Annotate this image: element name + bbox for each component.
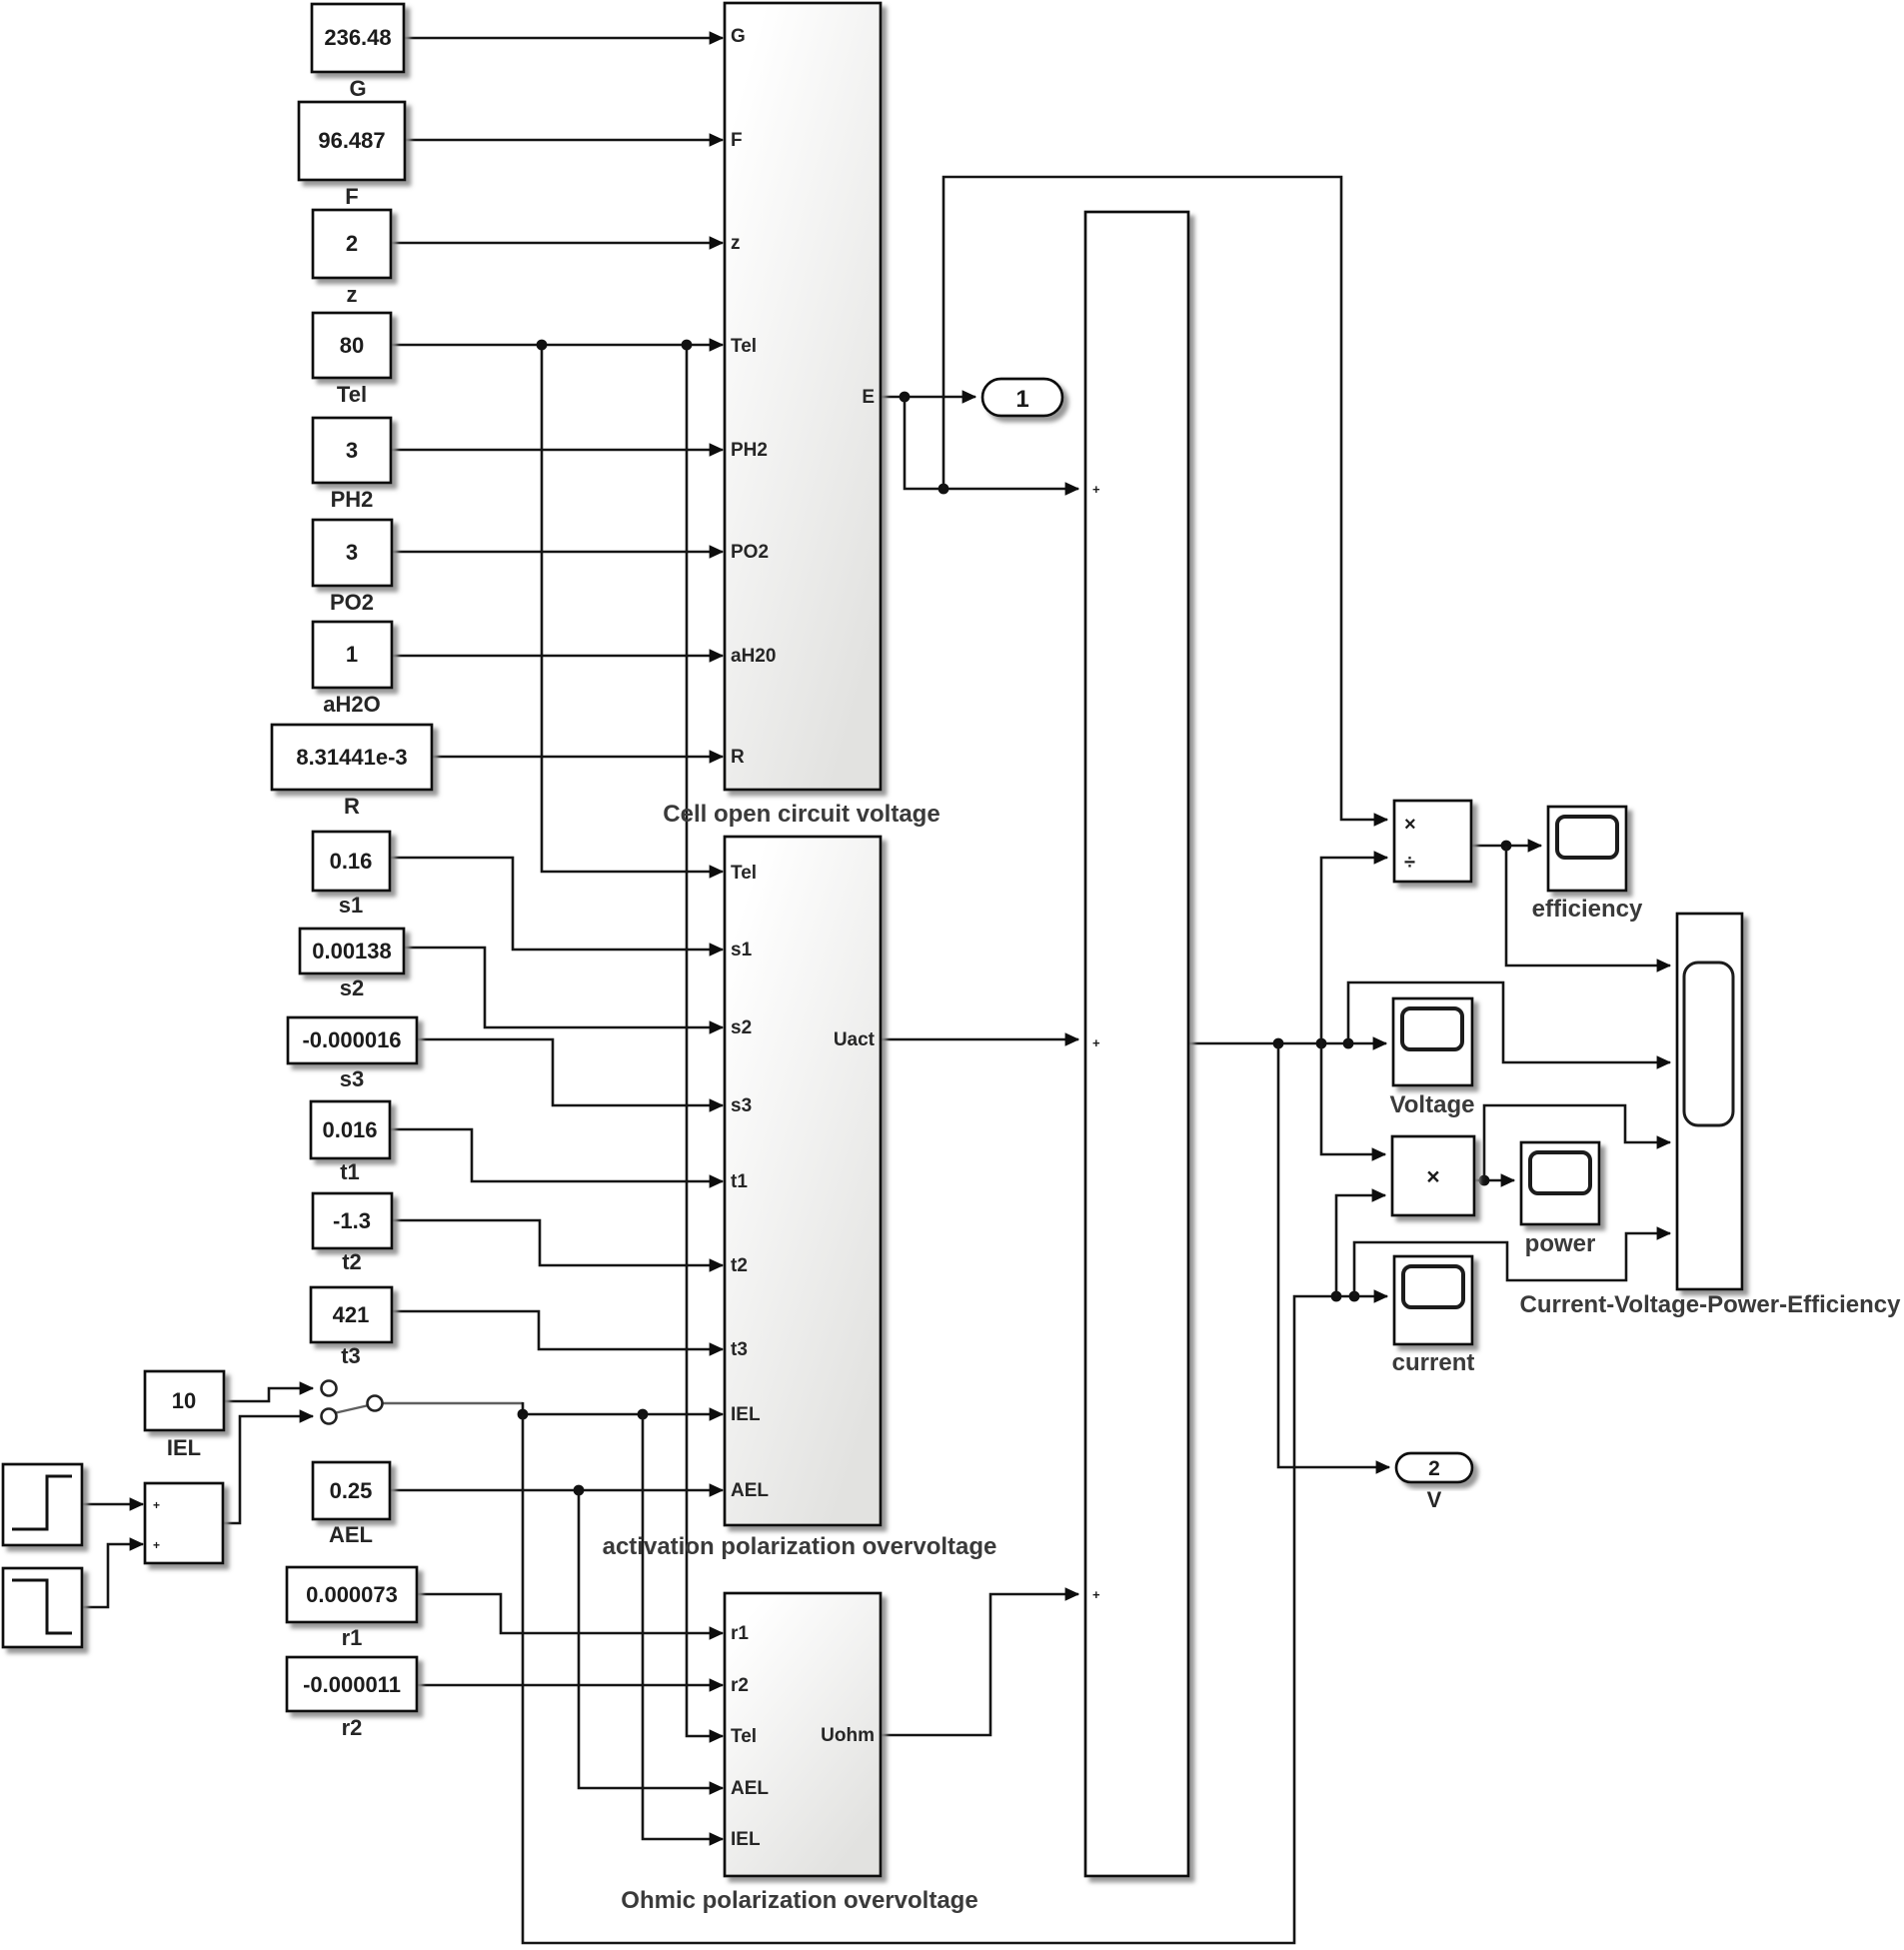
wire PO2 constant to Cell PO2 — [392, 551, 723, 554]
wire PH2 constant to Cell PH2 — [391, 449, 723, 452]
svg-text:V: V — [1427, 1487, 1442, 1512]
sum block main — [1085, 212, 1188, 1876]
svg-text:PO2: PO2 — [731, 542, 769, 563]
constant t3 421 — [311, 1287, 392, 1368]
node Tel junction 1 — [537, 340, 548, 351]
constant aH2O 1 — [313, 622, 392, 717]
svg-text:0.016: 0.016 — [322, 1117, 377, 1142]
wire t3 constant to activation t3 — [392, 1311, 723, 1349]
wire V to divide denominator — [1321, 858, 1387, 1043]
svg-text:-1.3: -1.3 — [333, 1208, 371, 1233]
node efficiency junction — [1501, 841, 1512, 852]
svg-text:0.16: 0.16 — [330, 849, 373, 874]
svg-text:AEL: AEL — [731, 1480, 769, 1501]
svg-text:t3: t3 — [731, 1339, 748, 1360]
out port 1 — [982, 379, 1062, 416]
svg-text:r1: r1 — [342, 1625, 363, 1650]
node current junction 1 — [1331, 1291, 1342, 1302]
svg-text:÷: ÷ — [1404, 852, 1415, 874]
svg-text:PH2: PH2 — [331, 487, 374, 512]
svg-text:t1: t1 — [731, 1171, 748, 1192]
wire current to product input 2 — [1336, 1195, 1385, 1296]
wire switch lever — [334, 1405, 369, 1413]
wire Tel branch to Ohmic Tel — [687, 345, 723, 1736]
svg-text:+: + — [1092, 1035, 1100, 1050]
constant s2 0.00138 — [300, 929, 404, 1000]
scope Voltage — [1390, 998, 1475, 1118]
node V junction 3 — [1343, 1038, 1354, 1049]
svg-text:3: 3 — [346, 438, 358, 463]
constant AEL 0.25 — [313, 1462, 390, 1547]
svg-text:G: G — [349, 76, 366, 101]
svg-text:+: + — [1092, 1587, 1100, 1602]
svg-text:s2: s2 — [731, 1017, 752, 1038]
node power junction — [1479, 1175, 1490, 1186]
wire Tel constant to Cell Tel — [391, 344, 723, 347]
constant z 2 — [313, 210, 391, 307]
wire t2 constant to activation t2 — [392, 1220, 723, 1265]
svg-text:s1: s1 — [731, 940, 753, 961]
svg-text:IEL: IEL — [167, 1435, 201, 1460]
wire E output to out port 1 — [881, 396, 975, 399]
svg-text:-0.000016: -0.000016 — [302, 1027, 401, 1052]
wire divide output to efficiency scope — [1471, 845, 1541, 848]
svg-text:×: × — [1404, 814, 1416, 836]
svg-text:96.487: 96.487 — [318, 128, 385, 153]
node current junction 2 — [1349, 1291, 1360, 1302]
wire sum output to Voltage scope — [1188, 1042, 1386, 1045]
wire IEL branch to Ohmic IEL — [643, 1414, 723, 1839]
wire aH2O constant to Cell aH20 — [392, 655, 723, 658]
svg-text:Uohm: Uohm — [821, 1725, 875, 1746]
svg-text:z: z — [347, 282, 358, 307]
constant t2 -1.3 — [313, 1193, 392, 1274]
node E junction — [900, 392, 911, 403]
constant Tel 80 — [313, 313, 391, 407]
svg-text:r2: r2 — [731, 1675, 749, 1696]
svg-text:t2: t2 — [731, 1255, 748, 1276]
constant PH2 3 — [313, 418, 391, 512]
wire product output to power scope — [1474, 1179, 1514, 1182]
svg-text:0.000073: 0.000073 — [306, 1582, 398, 1607]
svg-text:r1: r1 — [731, 1623, 749, 1644]
step block step1 — [3, 1464, 82, 1545]
subsystem Ohmic polarization overvoltage — [621, 1593, 977, 1914]
svg-text:s3: s3 — [731, 1095, 752, 1116]
subsystem Cell open circuit voltage — [663, 3, 940, 828]
svg-text:current: current — [1392, 1349, 1475, 1376]
svg-text:+: + — [1092, 482, 1100, 497]
wire V to product input 1 — [1321, 1043, 1385, 1154]
wire IEL constant to switch upper input — [224, 1388, 313, 1401]
svg-text:AEL: AEL — [329, 1522, 373, 1547]
wire step2 to sum2 input 2 — [82, 1544, 143, 1607]
wire V to out port 2 — [1278, 1043, 1389, 1467]
wire Uohm to sum input 3 — [881, 1594, 1078, 1735]
wire s1 constant to activation s1 — [390, 858, 723, 950]
wire Tel branch to activation Tel — [542, 345, 723, 872]
svg-text:t1: t1 — [340, 1159, 360, 1184]
svg-text:0.25: 0.25 — [330, 1478, 373, 1503]
svg-text:×: × — [1426, 1163, 1439, 1189]
sum block sum2 — [145, 1483, 223, 1563]
svg-text:aH20: aH20 — [731, 646, 776, 667]
constant s3 -0.000016 — [288, 1017, 417, 1091]
scope mux Current-Voltage-Power-Efficiency — [1520, 914, 1902, 1318]
node IEL junction 2 — [638, 1409, 649, 1420]
svg-text:+: + — [153, 1538, 160, 1552]
node Tel junction 2 — [682, 340, 693, 351]
step block step2 — [3, 1568, 82, 1647]
constant s1 0.16 — [313, 832, 390, 918]
constant r2 -0.000011 — [287, 1657, 417, 1740]
switch manual — [322, 1381, 383, 1424]
wire efficiency to mux input 1 — [1506, 846, 1670, 966]
wire V to mux input 2 — [1348, 982, 1670, 1062]
svg-text:0.00138: 0.00138 — [312, 939, 392, 964]
svg-text:IEL: IEL — [731, 1829, 761, 1850]
wire z constant to Cell z — [391, 242, 723, 245]
wire s2 constant to activation s2 — [404, 948, 723, 1027]
svg-text:Cell open circuit voltage: Cell open circuit voltage — [663, 801, 940, 828]
svg-text:z: z — [731, 233, 741, 254]
svg-text:AEL: AEL — [731, 1778, 769, 1799]
wire power to mux input 3 — [1484, 1105, 1670, 1180]
out port 2 V — [1396, 1453, 1472, 1512]
svg-text:8.31441e-3: 8.31441e-3 — [296, 745, 407, 770]
svg-text:10: 10 — [172, 1388, 196, 1413]
svg-text:activation polarization overvo: activation polarization overvoltage — [603, 1533, 997, 1560]
wire AEL branch to Ohmic AEL — [579, 1490, 723, 1788]
product block — [1392, 1136, 1474, 1215]
wire switch output to activation IEL — [523, 1402, 723, 1414]
svg-text:3: 3 — [346, 540, 358, 565]
svg-text:s2: s2 — [340, 975, 364, 1000]
svg-text:1: 1 — [346, 642, 358, 667]
svg-text:Tel: Tel — [731, 863, 757, 884]
wire Uact to sum input 2 — [881, 1038, 1078, 1041]
svg-text:Current-Voltage-Power-Efficien: Current-Voltage-Power-Efficiency — [1520, 1291, 1902, 1318]
scope current — [1392, 1256, 1475, 1376]
constant r1 0.000073 — [287, 1567, 417, 1650]
divide block — [1394, 801, 1471, 882]
svg-text:+: + — [153, 1498, 160, 1512]
svg-text:aH2O: aH2O — [323, 692, 380, 717]
svg-text:t3: t3 — [341, 1343, 361, 1368]
subsystem activation polarization overvoltage — [603, 837, 997, 1560]
constant G 236.48 — [312, 4, 404, 101]
svg-text:PH2: PH2 — [731, 440, 768, 461]
svg-text:s1: s1 — [339, 893, 363, 918]
constant R 8.31441e-3 — [272, 725, 432, 819]
wire E feedback to divide numerator — [944, 177, 1387, 820]
svg-text:Voltage: Voltage — [1390, 1091, 1475, 1118]
wire t1 constant to activation t1 — [390, 1129, 723, 1181]
svg-text:F: F — [731, 130, 743, 151]
node IEL junction 1 — [518, 1409, 529, 1420]
wire step1 to sum2 input 1 — [82, 1503, 143, 1506]
node AEL junction — [574, 1485, 585, 1496]
svg-text:R: R — [731, 747, 745, 768]
svg-text:t2: t2 — [342, 1249, 362, 1274]
wire current to mux input 4 — [1354, 1233, 1670, 1296]
wire current feedback bottom — [523, 1296, 1387, 1943]
scope efficiency — [1532, 807, 1643, 923]
svg-text:1: 1 — [1015, 386, 1028, 413]
constant t1 0.016 — [311, 1101, 390, 1184]
node V junction 2 — [1316, 1038, 1327, 1049]
constant F 96.487 — [299, 102, 405, 209]
svg-text:-0.000011: -0.000011 — [303, 1672, 401, 1697]
svg-text:s3: s3 — [340, 1066, 364, 1091]
svg-text:E: E — [862, 387, 875, 408]
svg-text:421: 421 — [333, 1302, 370, 1327]
wire G constant to Cell G — [404, 37, 723, 40]
node E feedback junction — [939, 484, 950, 495]
wire F constant to Cell F — [405, 139, 723, 142]
wire r1 constant to Ohmic r1 — [417, 1594, 723, 1633]
svg-text:efficiency: efficiency — [1532, 896, 1643, 923]
svg-text:F: F — [345, 184, 358, 209]
svg-text:Tel: Tel — [337, 382, 367, 407]
node V junction 1 — [1273, 1038, 1284, 1049]
wire r2 constant to Ohmic r2 — [417, 1684, 723, 1687]
svg-text:Ohmic polarization overvoltage: Ohmic polarization overvoltage — [621, 1887, 977, 1914]
svg-text:PO2: PO2 — [330, 590, 374, 615]
wire E to sum input 1 — [905, 397, 1078, 489]
svg-text:Tel: Tel — [731, 1726, 757, 1747]
svg-text:2: 2 — [1428, 1457, 1440, 1480]
svg-text:Uact: Uact — [834, 1029, 876, 1050]
svg-text:80: 80 — [340, 333, 364, 358]
svg-text:236.48: 236.48 — [324, 25, 391, 50]
wire sum2 output to switch lower input — [223, 1416, 313, 1523]
scope power — [1521, 1142, 1599, 1257]
wire R constant to Cell R — [432, 756, 723, 759]
svg-text:IEL: IEL — [731, 1404, 761, 1425]
wire s3 constant to activation s3 — [417, 1039, 723, 1105]
svg-text:Tel: Tel — [731, 336, 757, 357]
svg-text:R: R — [344, 794, 360, 819]
svg-text:G: G — [731, 26, 746, 47]
svg-text:2: 2 — [346, 231, 358, 256]
wire switch output — [382, 1402, 523, 1404]
svg-text:r2: r2 — [342, 1715, 363, 1740]
svg-text:power: power — [1525, 1230, 1596, 1257]
constant PO2 3 — [313, 520, 392, 615]
wire AEL constant to activation AEL — [390, 1489, 723, 1492]
constant IEL 10 — [145, 1371, 224, 1460]
